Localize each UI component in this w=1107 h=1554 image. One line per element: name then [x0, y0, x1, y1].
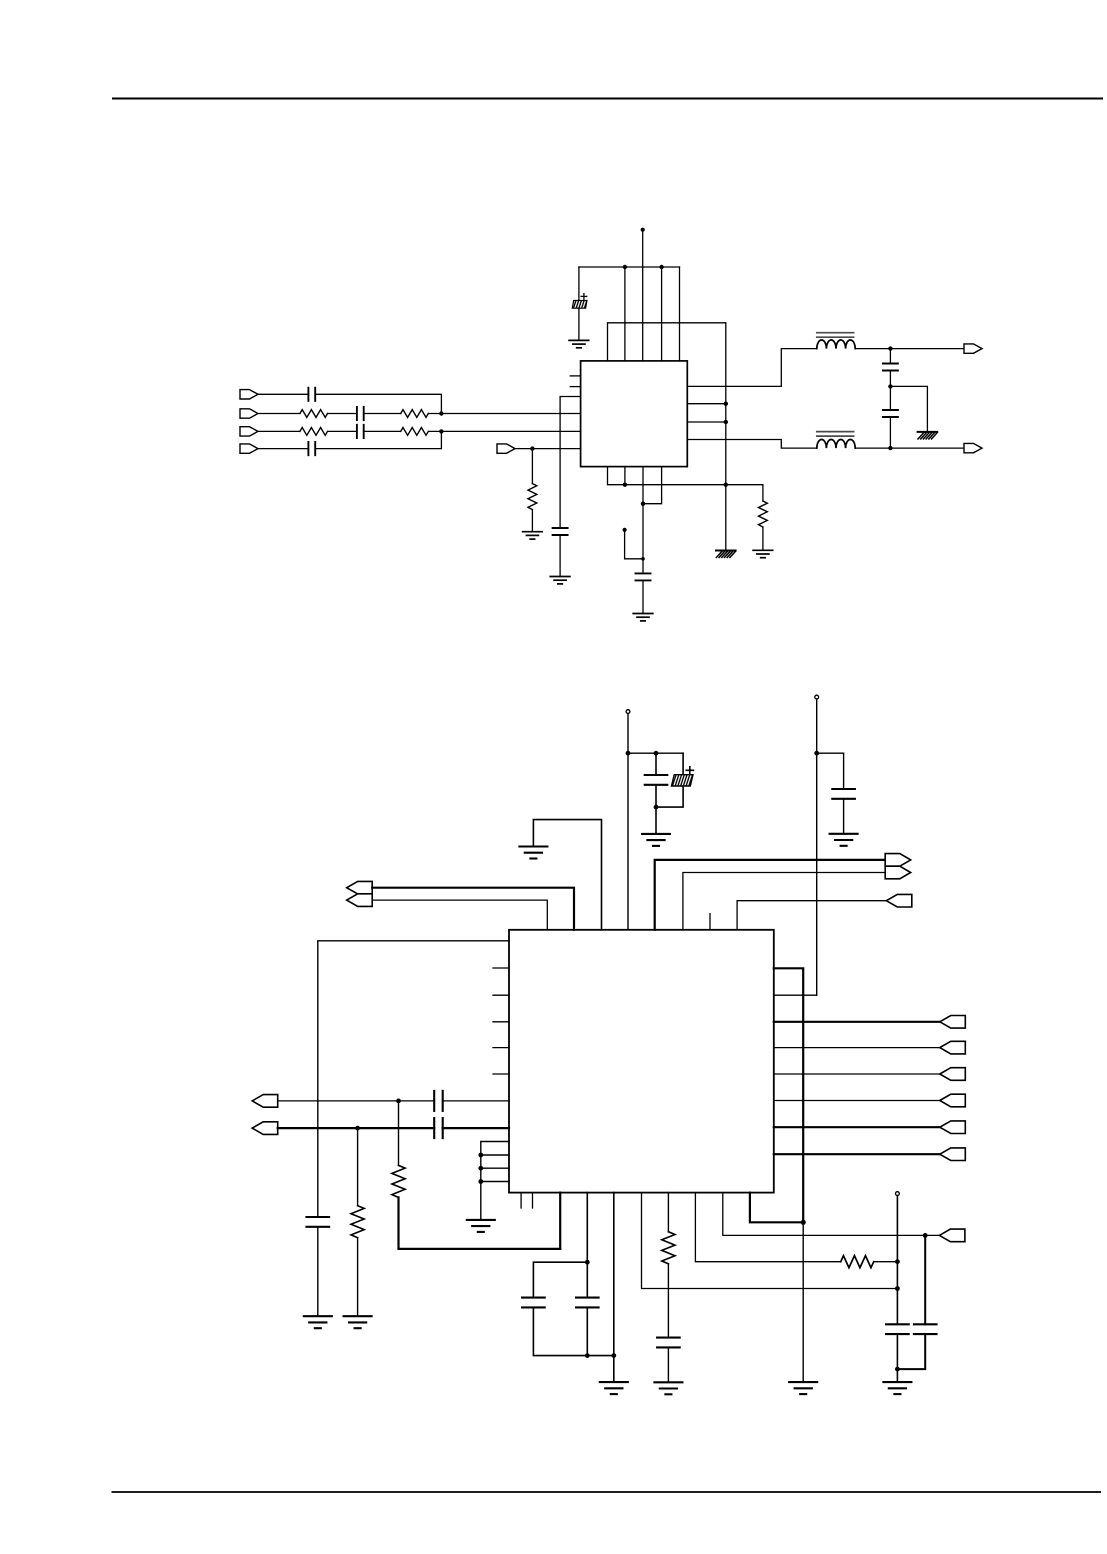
node tied 4: [478, 1179, 483, 1184]
wire C5 to ground: [559, 535, 561, 576]
wire R10 to node: [874, 1261, 898, 1263]
wire row2 lead: [258, 413, 300, 415]
ground: [830, 834, 858, 846]
node stub join: [641, 557, 645, 561]
wire to C12: [817, 753, 844, 789]
node tied 2: [478, 1153, 483, 1158]
ground: [519, 847, 547, 859]
wire L2 to terminal: [855, 447, 964, 449]
terminal D5: [940, 1121, 966, 1134]
node row3 junction: [439, 429, 443, 433]
wire pin bottom c: [642, 467, 644, 574]
wire rail2: [608, 323, 726, 551]
ground: [789, 1382, 817, 1394]
wire C10 top lead: [655, 753, 657, 775]
wire pin to C5: [560, 397, 581, 529]
wire R5 to ground: [531, 510, 533, 532]
NC stub pin left 2: [570, 386, 580, 388]
wire AVDD vertical: [816, 699, 818, 995]
wire pin RST in: [737, 901, 886, 930]
wire pin data5: [774, 1126, 940, 1128]
terminal XTO: [347, 894, 373, 907]
resistor R3: [300, 428, 328, 436]
capacitor C3: [357, 425, 364, 438]
capacitor C9: [636, 573, 651, 580]
node caps bottom: [585, 1353, 590, 1358]
node cap bottom junction: [654, 805, 659, 810]
wire rail1 pin a: [624, 267, 626, 361]
capacitor C11 polarized: [656, 753, 693, 807]
wire vcap vertical: [896, 1196, 898, 1325]
wire row3 mid: [328, 430, 357, 432]
wire C14 to IC: [443, 1100, 509, 1102]
wire C9 to ground: [642, 580, 644, 613]
node row2 junction: [439, 411, 443, 415]
wire row1 left: [258, 393, 308, 395]
ground: [550, 577, 570, 584]
resistor R10: [841, 1256, 874, 1268]
wire C15 to IC: [443, 1127, 509, 1129]
wire AINR: [278, 1100, 435, 1102]
wire pin bottom b: [624, 467, 626, 485]
node AINL junction: [355, 1126, 360, 1131]
inductor L1: [817, 333, 855, 349]
wire pin dgnd: [750, 1193, 803, 1223]
resistor R7: [392, 1165, 405, 1197]
wire R6 to ground: [762, 527, 764, 550]
terminal MCLK: [885, 854, 911, 867]
node VDD junction: [626, 751, 631, 756]
wire row3 to IC: [428, 430, 580, 432]
inductor L2: [817, 432, 855, 449]
wire VCM down: [531, 449, 533, 484]
wire pin vreg a: [687, 403, 726, 405]
wire R7 down: [399, 1197, 561, 1249]
terminal OUTL: [964, 443, 982, 452]
ground: [600, 1382, 628, 1394]
wire tied pin 3: [481, 1167, 509, 1169]
wire pin vref2: [667, 1193, 669, 1232]
wire pin bottom d: [643, 467, 662, 504]
resistor R5: [528, 484, 537, 510]
wire C8 down: [889, 417, 891, 448]
node C19 bottom: [895, 1367, 900, 1372]
wire AINL: [278, 1127, 435, 1129]
node vcap open top: [896, 1192, 900, 1196]
resistor R2: [401, 410, 429, 418]
ground: [344, 1316, 372, 1328]
node AINR junction: [396, 1099, 401, 1104]
wire row2 mid: [328, 413, 357, 415]
wire pin vreg b: [687, 421, 726, 423]
wire pin MCLK out: [655, 860, 886, 930]
node vcap a: [895, 1259, 900, 1264]
capacitor C14: [434, 1091, 443, 1111]
terminal VCM: [497, 444, 515, 453]
ground: [883, 1382, 911, 1394]
capacitor C20: [914, 1324, 937, 1334]
resistor R6: [759, 501, 768, 527]
node stub top: [623, 528, 627, 532]
wire bus to ground: [802, 1222, 804, 1382]
wire C18 to ground: [667, 1347, 669, 1382]
ground: [304, 1316, 332, 1328]
wire node to chassis: [890, 386, 927, 432]
node mid caps: [888, 384, 892, 388]
terminal IN1: [240, 390, 258, 399]
wire row3 mid2: [364, 430, 401, 432]
wire XTO to pin: [372, 900, 547, 930]
wire C13 to ground: [317, 1227, 319, 1316]
node dgnd bus: [801, 1220, 806, 1225]
wire row4 right: [315, 431, 441, 448]
node L2 out: [888, 446, 892, 450]
chassis ground: [716, 551, 736, 558]
NC stub left 2: [493, 994, 509, 996]
wire left loop VREF: [318, 941, 509, 1217]
wire row2 to IC: [428, 413, 580, 415]
terminal D4: [940, 1094, 966, 1107]
wire pin DVDD bus: [774, 968, 803, 1222]
terminal D6: [940, 1148, 966, 1161]
wire C6 to ground: [578, 308, 580, 340]
capacitor C19: [886, 1324, 909, 1334]
wire pin vcom: [559, 1193, 561, 1249]
wire AINR bias: [398, 1101, 400, 1166]
wire to C16: [533, 1262, 587, 1297]
terminal SCLK: [885, 866, 911, 879]
wire C12 to ground: [843, 799, 845, 834]
wire pin data2: [774, 1047, 940, 1049]
wire pin agnd2: [613, 1193, 615, 1383]
resistor R4: [401, 428, 429, 436]
ground: [569, 340, 589, 347]
wire pin data3: [774, 1073, 940, 1075]
ground: [642, 834, 670, 846]
wire supply rail1: [579, 266, 680, 268]
node vrefp junction: [585, 1260, 590, 1265]
node agnd2: [611, 1353, 616, 1358]
footer rule: [112, 1491, 1102, 1493]
terminal AINL: [252, 1122, 278, 1135]
wire pin data4: [774, 1100, 940, 1102]
wire bottom rail3: [608, 467, 763, 501]
node pins cd: [641, 502, 645, 506]
capacitor C4: [308, 442, 315, 455]
node rail2 c: [724, 483, 728, 487]
capacitor C1: [308, 388, 315, 401]
node tied 3: [478, 1166, 483, 1171]
IC U2: [509, 930, 774, 1193]
wire L1 to terminal: [855, 348, 964, 350]
NC stub left 4: [493, 1047, 509, 1049]
wire rail1 left drop: [578, 267, 580, 301]
NC stub left 5: [493, 1073, 509, 1075]
terminal PDN: [939, 1229, 965, 1242]
wire C19 down: [896, 1334, 898, 1382]
wire C10 bottom lead: [655, 785, 657, 834]
terminal IN3: [240, 427, 258, 436]
node rail1 b: [659, 265, 663, 269]
wire pin filt: [642, 1193, 898, 1289]
terminal IN4: [240, 444, 258, 453]
node rail1 a: [623, 265, 627, 269]
terminal AINR: [252, 1095, 278, 1108]
node rail2 a: [724, 402, 728, 406]
wire VDD stub: [642, 230, 644, 267]
wire XTI to pin: [372, 888, 574, 930]
wire pin vrefp: [586, 1193, 588, 1298]
terminal XTI: [347, 881, 373, 894]
NC stub left 1: [493, 967, 509, 969]
terminal RST: [886, 894, 912, 907]
ground: [523, 532, 543, 539]
wire row3 lead: [258, 430, 300, 432]
capacitor C2: [357, 407, 364, 420]
terminal D2: [940, 1041, 966, 1054]
node AVDD junction: [814, 751, 819, 756]
terminal D1: [940, 1016, 966, 1029]
wire agnd pin: [533, 820, 601, 930]
node L1 out: [888, 346, 892, 350]
wire stub: [625, 530, 643, 559]
wire VCM to IC: [515, 448, 581, 450]
terminal D3: [940, 1068, 966, 1081]
capacitor C7: [883, 364, 898, 371]
wire AINL bias: [357, 1128, 359, 1206]
resistor R9: [662, 1232, 675, 1264]
wire R8 to ground: [357, 1238, 359, 1317]
NC stub pin left 1: [570, 375, 580, 377]
node rail3 a: [623, 483, 627, 487]
ground: [633, 614, 653, 621]
node VDD stub top: [641, 228, 645, 232]
wire C7 to node: [889, 371, 891, 411]
header rule: [112, 98, 1103, 100]
node rail2 b: [724, 420, 728, 424]
node VDD open top: [626, 710, 630, 714]
node vcap b: [895, 1286, 900, 1291]
wire VDD vertical: [627, 714, 629, 930]
capacitor C15: [434, 1118, 443, 1138]
capacitor C8: [883, 410, 898, 417]
ground: [467, 1220, 495, 1232]
wire C20 bottom: [897, 1334, 925, 1369]
wire pin vq: [695, 1193, 840, 1262]
ground: [654, 1382, 682, 1394]
wire pin pdn: [723, 1193, 940, 1236]
chassis ground: [918, 432, 938, 439]
wire rail1 pin c: [661, 267, 663, 361]
capacitor C17: [576, 1298, 599, 1308]
wire rail1 pin b: [642, 267, 644, 361]
wire row4 left: [258, 448, 308, 450]
wire C20 top lead: [924, 1235, 926, 1324]
capacitor C18: [657, 1338, 680, 1348]
terminal IN2: [240, 409, 258, 418]
wire tied pins bar: [481, 1142, 509, 1220]
NC stub bottom 2: [532, 1193, 534, 1208]
wire rail1 pin d: [679, 267, 681, 361]
node cap junction: [654, 751, 659, 756]
wire VDD caps: [628, 752, 683, 754]
wire pin data6: [774, 1153, 940, 1155]
wire C17 down: [586, 1307, 588, 1355]
ground: [753, 550, 773, 557]
wire pin data1: [774, 1021, 940, 1023]
wire row1 right: [315, 394, 441, 413]
node VCM junction: [530, 446, 534, 450]
node pdn cap junction: [923, 1233, 928, 1238]
capacitor C5: [553, 528, 568, 535]
resistor R8: [351, 1206, 364, 1238]
wire AVDD to pin: [774, 994, 817, 996]
wire tied pin 2: [481, 1154, 509, 1156]
NC stub bottom 1: [520, 1193, 522, 1208]
wire pin OUT-: [687, 440, 817, 449]
wire R9 to C18: [667, 1264, 669, 1338]
capacitor C16: [522, 1298, 545, 1308]
terminal OUTR: [964, 344, 982, 353]
wire to C7: [889, 349, 891, 364]
IC U1: [581, 361, 688, 467]
resistor R1: [300, 410, 328, 418]
NC stub top: [709, 914, 711, 930]
capacitor C13: [307, 1217, 330, 1227]
wire row2 mid2: [364, 413, 401, 415]
NC stub left 3: [493, 1021, 509, 1023]
node AVDD open top: [815, 695, 819, 699]
wire tied pin 4: [481, 1181, 509, 1183]
capacitor C10: [645, 775, 668, 785]
wire pin OUT+: [687, 349, 817, 387]
capacitor C6 polarized: [572, 294, 587, 309]
wire C16 down: [533, 1307, 613, 1355]
capacitor C12: [832, 789, 855, 799]
wire pin SCLK out: [683, 873, 885, 930]
